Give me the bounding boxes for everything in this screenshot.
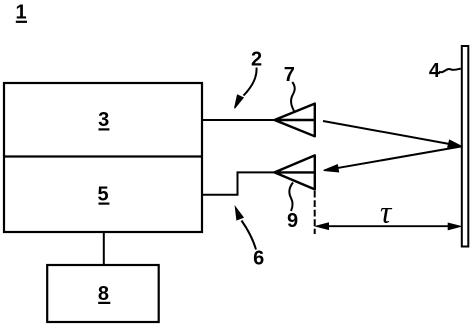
svg-text:2: 2: [251, 49, 262, 71]
transmit beam arrow (antenna 7 to wall): [323, 121, 461, 147]
label 3: [98, 109, 109, 131]
label 8: [98, 283, 110, 305]
wire block5 to antenna 9 (stepped): [202, 172, 275, 194]
block 8 box: [47, 265, 159, 322]
svg-text:4: 4: [429, 60, 441, 82]
wall 4 (reflector plate): [462, 46, 469, 247]
svg-text:6: 6: [253, 247, 264, 269]
leader from label 4 to wall: [439, 69, 461, 72]
antenna 7 (transmit horn): [275, 104, 315, 137]
label 5: [97, 184, 109, 206]
svg-text:τ: τ: [380, 195, 393, 230]
block 3/5 outer box: [4, 83, 202, 232]
divider between block 3 and block 5: [4, 155, 202, 157]
wire block3 to antenna 7: [202, 119, 275, 121]
svg-text:9: 9: [287, 210, 298, 232]
svg-text:1: 1: [15, 2, 26, 24]
svg-text:8: 8: [98, 283, 109, 305]
label 1 (figure reference): [15, 2, 27, 24]
tau distance double arrow: [316, 223, 461, 230]
svg-text:5: 5: [97, 184, 108, 206]
leader from label 9 to antenna 9: [289, 183, 293, 212]
leader arrow from label 6 to wire: [235, 207, 256, 249]
svg-text:3: 3: [98, 109, 109, 131]
dashed reference line below antenna 9: [314, 191, 316, 234]
antenna 9 (receive horn): [275, 155, 315, 189]
leader arrow from label 2 to wire: [235, 68, 257, 109]
leader from label 7 to antenna 7: [291, 82, 295, 111]
reflected beam arrow (wall to antenna 9): [324, 147, 461, 172]
wire block5 to block8: [103, 232, 105, 265]
